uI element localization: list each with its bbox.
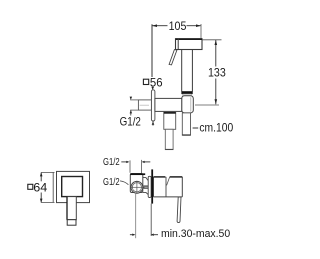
svg-text:cm.100: cm.100 (199, 120, 233, 134)
svg-text:min.30-max.50: min.30-max.50 (161, 228, 230, 240)
svg-text:G1/2: G1/2 (120, 114, 142, 128)
svg-text:105: 105 (169, 19, 187, 33)
svg-text:133: 133 (208, 66, 226, 80)
svg-text:64: 64 (33, 180, 47, 194)
svg-text:G1/2: G1/2 (103, 157, 120, 168)
svg-text:G1/2: G1/2 (103, 177, 120, 188)
